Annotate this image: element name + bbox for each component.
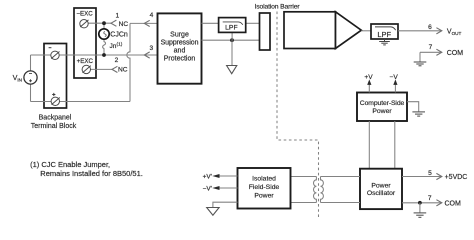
svg-text:Backpanel: Backpanel xyxy=(39,114,72,121)
wire VIN bottom riser xyxy=(30,84,32,102)
surge suppression block U1 xyxy=(158,13,202,83)
svg-text:−EXC: −EXC xyxy=(76,11,93,18)
svg-text:CJCn: CJCn xyxy=(110,32,128,39)
wire surge lower to isolation element xyxy=(202,39,260,41)
svg-text:VOUT: VOUT xyxy=(447,29,462,36)
svg-text:Power: Power xyxy=(372,108,392,115)
node dot jumper xyxy=(102,53,106,57)
CJC sensor circle xyxy=(99,29,109,39)
wire osc pin5 xyxy=(402,176,442,178)
power oscillator block xyxy=(360,169,402,209)
svg-text:Remains Installed for 8B50/51.: Remains Installed for 8B50/51. xyxy=(40,169,143,178)
wires transformer to oscillator xyxy=(321,176,361,178)
backpanel terminal block xyxy=(44,44,67,109)
amplifier block xyxy=(284,12,336,49)
wire comp power right to ground xyxy=(407,102,419,112)
+V arrow xyxy=(368,84,370,92)
pin 4 chevron xyxy=(144,20,149,26)
svg-text:NC: NC xyxy=(118,67,128,74)
svg-text:NC: NC xyxy=(119,21,129,28)
wire osc pin7 xyxy=(402,202,442,204)
field ground triangle xyxy=(227,66,237,74)
isolation barrier dashed line xyxy=(277,12,319,218)
svg-text:+V′: +V′ xyxy=(203,173,213,180)
screw terminal backpanel minus xyxy=(51,51,60,59)
svg-text:LPF: LPF xyxy=(225,24,237,31)
screw terminal +EXC xyxy=(82,65,91,73)
screw terminal backpanel plus xyxy=(51,97,60,105)
+V' arrow xyxy=(219,175,238,177)
svg-text:Jn(1): Jn(1) xyxy=(110,42,123,50)
svg-text:Field-Side: Field-Side xyxy=(249,184,280,191)
svg-text:6: 6 xyxy=(428,24,432,31)
svg-text:Surge: Surge xyxy=(170,32,189,39)
wire bottom field rail xyxy=(31,101,131,103)
pin 3 chevron xyxy=(144,52,149,58)
wire field power ground xyxy=(213,202,238,207)
svg-text:7: 7 xyxy=(429,44,433,51)
low pass filter LPF2 xyxy=(371,24,398,39)
pin 6 chevron VOUT xyxy=(436,28,441,34)
svg-text:Suppression: Suppression xyxy=(161,40,199,47)
wire top field rail xyxy=(31,54,158,56)
svg-text:3: 3 xyxy=(149,45,153,52)
svg-text:+V: +V xyxy=(364,74,373,81)
svg-text:COM: COM xyxy=(447,50,464,57)
field ground triangle 2 xyxy=(207,208,219,216)
earth ground COM top xyxy=(414,62,427,66)
node dot pin7 xyxy=(418,201,422,205)
wire LPF1 bottom stem xyxy=(231,32,233,40)
voltage source VIN xyxy=(24,71,37,84)
pin 2 chevron NC xyxy=(112,66,117,72)
svg-text:4: 4 xyxy=(150,12,154,19)
low pass filter LPF1 xyxy=(219,18,246,33)
-V arrow xyxy=(394,84,396,92)
svg-text:(1) CJC Enable Jumper,: (1) CJC Enable Jumper, xyxy=(30,160,110,169)
wire comp power risers xyxy=(368,121,370,169)
wire LPF1 to isolation element xyxy=(246,22,260,24)
svg-text:Terminal Block: Terminal Block xyxy=(31,123,77,130)
svg-text:and: and xyxy=(174,47,186,54)
svg-text:5: 5 xyxy=(428,170,432,177)
computer-side power block xyxy=(357,93,407,122)
svg-text:+EXC: +EXC xyxy=(77,58,94,65)
wire LPF2 to pin6 xyxy=(398,30,442,32)
wire ground stem xyxy=(231,40,233,65)
svg-text:LPF: LPF xyxy=(377,30,391,39)
node dot EXC xyxy=(102,21,106,25)
transformer T1 left winding xyxy=(313,177,316,203)
excitation terminal block xyxy=(74,8,96,78)
svg-text:Power: Power xyxy=(371,182,391,189)
wire -EXC to node xyxy=(84,22,111,24)
earth ground osc xyxy=(414,213,427,217)
earth ground LPF2 xyxy=(379,39,390,45)
pin 7 chevron COM bottom xyxy=(436,200,441,206)
svg-text:Power: Power xyxy=(254,193,274,200)
wire VIN top riser xyxy=(30,55,32,71)
svg-text:Isolation Barrier: Isolation Barrier xyxy=(254,4,300,11)
wire COM stem xyxy=(419,52,421,61)
svg-text:VIN: VIN xyxy=(13,73,22,82)
wire pin7 ground stem xyxy=(419,203,421,213)
screw terminal -EXC xyxy=(80,20,89,28)
wire riser with hop xyxy=(127,23,130,101)
isolated field-side power block xyxy=(238,168,291,209)
wire surge to LPF1 xyxy=(202,22,219,24)
svg-text:7: 7 xyxy=(428,195,432,202)
pin 1 chevron NC xyxy=(111,20,116,26)
svg-text:Protection: Protection xyxy=(164,55,196,62)
wire amp to LPF2 xyxy=(361,30,371,32)
svg-text:+5VDC: +5VDC xyxy=(445,174,468,181)
svg-text:Computer-Side: Computer-Side xyxy=(360,100,405,107)
svg-text:Isolated: Isolated xyxy=(252,175,276,182)
wire COM top xyxy=(420,51,442,53)
isolation element xyxy=(260,13,271,50)
jumper Jn squiggle xyxy=(103,39,106,55)
svg-text:COM: COM xyxy=(445,200,462,207)
amplifier triangle xyxy=(336,12,362,49)
-V' arrow xyxy=(219,187,238,189)
pin 7 chevron COM top xyxy=(436,49,441,55)
pin 5 chevron +5VDC xyxy=(436,173,441,179)
wire pin4 xyxy=(130,22,158,24)
wires field power to transformer xyxy=(291,176,317,178)
svg-text:2: 2 xyxy=(115,57,119,64)
wire pin2 NC stub xyxy=(86,68,112,70)
svg-text:−V: −V xyxy=(389,74,398,81)
transformer T1 right winding xyxy=(321,177,324,203)
svg-text:Oscillator: Oscillator xyxy=(367,190,396,197)
svg-text:−V′: −V′ xyxy=(203,185,213,192)
earth ground comp power xyxy=(412,112,425,116)
svg-text:1: 1 xyxy=(115,12,119,19)
wire CJC stub xyxy=(103,23,105,29)
node dot lower xyxy=(230,38,234,42)
